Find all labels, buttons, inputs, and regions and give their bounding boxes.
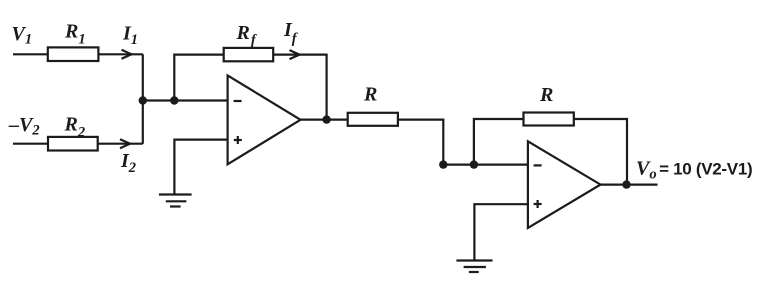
svg-text:If: If xyxy=(283,19,299,47)
wire op-amp1 output to R xyxy=(301,118,348,120)
ground 1 xyxy=(159,195,192,207)
wire V2 input lead xyxy=(13,143,48,145)
node A xyxy=(439,160,447,168)
op-amp U1 xyxy=(228,75,301,164)
wire R2 to summing corner xyxy=(98,143,143,145)
wire feedback riser 2 xyxy=(474,119,524,165)
node op-amp2 output xyxy=(622,180,630,188)
svg-text:R: R xyxy=(363,84,377,106)
wire op-amp2 noninverting input to ground xyxy=(474,204,528,260)
resistor R1 xyxy=(48,47,99,61)
arrow I1 xyxy=(122,50,132,59)
svg-text:R: R xyxy=(539,84,553,106)
node feedback tap xyxy=(170,96,178,104)
wire output lead xyxy=(601,184,658,186)
resistor R (feedback) xyxy=(524,113,574,126)
resistor R2 xyxy=(48,137,98,151)
wire R feedback to output xyxy=(574,119,627,185)
resistor Rf xyxy=(224,48,274,61)
svg-text:I2: I2 xyxy=(120,150,136,176)
node summing junction xyxy=(139,96,147,104)
ground 2 xyxy=(456,261,492,273)
svg-text:I1: I1 xyxy=(122,23,138,49)
svg-text:R1: R1 xyxy=(64,21,86,48)
wire op-amp1 noninverting input to ground xyxy=(174,140,227,195)
wire node A to op-amp2 inverting input xyxy=(443,164,528,166)
arrow If xyxy=(290,50,300,59)
wire Rf to output node xyxy=(273,55,326,120)
resistor R (coupling) xyxy=(348,113,398,126)
wire summing node to op-amp inverting input xyxy=(143,99,228,101)
node feedback tap 2 xyxy=(470,160,478,168)
wire feedback riser xyxy=(174,55,223,101)
op-amp U2 xyxy=(528,141,601,228)
node op-amp1 output xyxy=(322,115,330,123)
wire R1 to summing corner xyxy=(98,53,142,55)
svg-text:V1: V1 xyxy=(12,23,33,48)
wire V1 input lead xyxy=(13,53,48,55)
wire vertical summing bus xyxy=(142,54,144,143)
svg-text:–V2: –V2 xyxy=(8,114,40,139)
wire R to node A xyxy=(398,120,443,165)
svg-text:Rf: Rf xyxy=(236,22,258,49)
arrow I2 xyxy=(120,139,130,148)
svg-text:Vo= 10 (V2-V1): Vo= 10 (V2-V1) xyxy=(636,158,752,183)
